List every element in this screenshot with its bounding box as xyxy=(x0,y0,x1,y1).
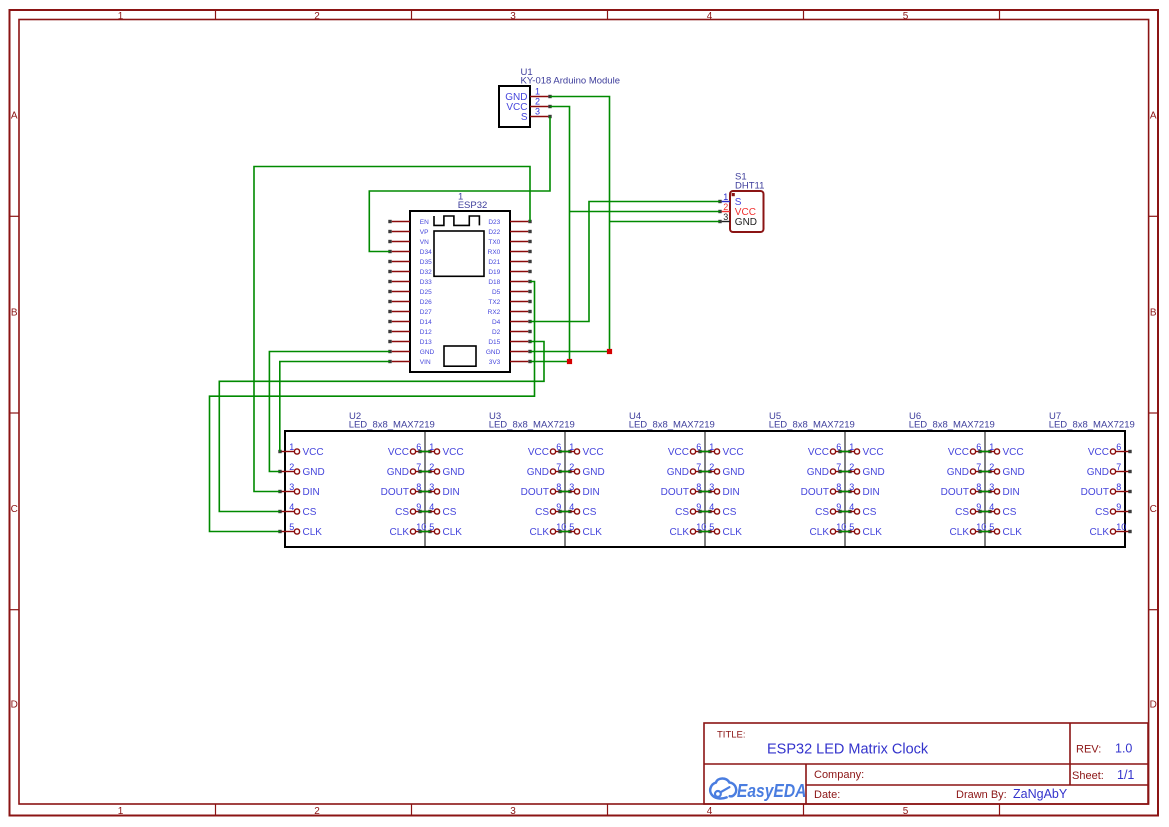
svg-text:VCC: VCC xyxy=(303,447,324,458)
ESP32 left pin EN xyxy=(388,219,429,226)
svg-text:ESP32 LED Matrix Clock: ESP32 LED Matrix Clock xyxy=(767,741,929,757)
ESP32 left pin D26 xyxy=(388,299,432,306)
S1 pin 1 xyxy=(718,192,730,203)
LED matrix modules U2-U7 outer body xyxy=(285,431,1125,547)
svg-text:VCC: VCC xyxy=(723,447,744,458)
svg-text:8: 8 xyxy=(1116,482,1121,492)
U4 pin 8 DOUT xyxy=(661,482,712,498)
svg-text:1: 1 xyxy=(709,442,714,452)
svg-text:D34: D34 xyxy=(420,249,432,256)
wire VCC net branch to S1 VCC xyxy=(570,211,721,213)
U7 pin 4 CS xyxy=(978,502,1016,518)
svg-text:1: 1 xyxy=(535,87,540,97)
svg-text:VCC: VCC xyxy=(388,447,409,458)
svg-text:D35: D35 xyxy=(420,259,432,266)
wire ESP32 GND to GND net junction xyxy=(530,351,610,353)
svg-text:4: 4 xyxy=(707,11,713,22)
U6 pin 4 CS xyxy=(838,502,876,518)
ESP32 left pin D12 xyxy=(388,329,432,336)
svg-text:DIN: DIN xyxy=(443,487,460,498)
wire module chain DOUT-DIN at x=985 xyxy=(980,491,990,493)
ESP32 right pin TX0 xyxy=(488,239,531,246)
microcontroller module ESP32 xyxy=(410,191,510,372)
junction VCC net xyxy=(567,359,572,364)
wire module chain VCC at x=705 xyxy=(700,451,710,453)
ESP32 left pin D34 xyxy=(388,249,432,256)
svg-text:2: 2 xyxy=(569,462,574,472)
svg-text:DOUT: DOUT xyxy=(941,487,969,498)
svg-text:CLK: CLK xyxy=(670,527,690,538)
wire module chain GND at x=985 xyxy=(980,471,990,473)
svg-text:VN: VN xyxy=(420,239,429,246)
ESP32 left pin D33 xyxy=(388,279,432,286)
U7 pin 2 GND xyxy=(978,462,1024,478)
svg-text:GND: GND xyxy=(863,467,885,478)
U1 pin 1 xyxy=(530,87,552,99)
svg-text:2: 2 xyxy=(289,462,294,472)
svg-text:CS: CS xyxy=(583,507,597,518)
svg-text:CLK: CLK xyxy=(583,527,603,538)
sensor module U1 KY-018 Arduino Module xyxy=(499,67,620,127)
svg-text:1/1: 1/1 xyxy=(1117,768,1134,782)
wire ESP32 VIN to U2 VCC xyxy=(280,362,390,452)
ESP32 left pin D32 xyxy=(388,269,432,276)
U3 pin 10 CLK xyxy=(530,522,572,538)
wire module chain CLK at x=705 xyxy=(700,531,710,533)
svg-text:GND: GND xyxy=(947,467,969,478)
U4 pin 3 DIN xyxy=(558,482,599,498)
wire module chain CLK at x=565 xyxy=(560,531,570,533)
svg-text:4: 4 xyxy=(849,502,854,512)
ESP32 left pin VN xyxy=(388,239,429,246)
svg-text:ESP32: ESP32 xyxy=(458,200,488,211)
svg-text:5: 5 xyxy=(849,522,854,532)
U5 pin 7 GND xyxy=(807,462,852,478)
module divider at x=845 xyxy=(844,431,846,547)
U4 pin 9 CS xyxy=(675,502,712,518)
U6 pin 9 CS xyxy=(955,502,992,518)
svg-text:EasyEDA: EasyEDA xyxy=(737,781,807,801)
ESP32 right pin D4 xyxy=(492,319,532,326)
U3 pin 4 CS xyxy=(418,502,456,518)
svg-text:VCC: VCC xyxy=(668,447,689,458)
wire module chain VCC at x=985 xyxy=(980,451,990,453)
U6 pin 6 VCC xyxy=(948,442,992,458)
svg-text:D18: D18 xyxy=(488,279,500,286)
svg-text:TX2: TX2 xyxy=(488,299,500,306)
svg-text:1: 1 xyxy=(989,442,994,452)
svg-text:2: 2 xyxy=(989,462,994,472)
U3 pin 1 VCC xyxy=(418,442,463,458)
svg-text:5: 5 xyxy=(903,11,909,22)
U3 pin 8 DOUT xyxy=(521,482,572,498)
S1 pin 2 xyxy=(718,202,730,213)
svg-text:LED_8x8_MAX7219: LED_8x8_MAX7219 xyxy=(489,420,575,431)
svg-text:5: 5 xyxy=(429,522,434,532)
U5 pin 4 CS xyxy=(698,502,736,518)
ESP32 left pin D27 xyxy=(388,309,432,316)
U5 pin 2 GND xyxy=(698,462,744,478)
svg-text:D25: D25 xyxy=(420,289,432,296)
wire ESP32 D23 to U2 DIN xyxy=(254,167,530,492)
svg-text:RX0: RX0 xyxy=(488,249,501,256)
U2 pin 5 CLK xyxy=(278,522,322,538)
svg-text:VCC: VCC xyxy=(1003,447,1024,458)
svg-text:DIN: DIN xyxy=(863,487,880,498)
svg-text:2: 2 xyxy=(535,97,540,107)
ESP32 left pin VIN xyxy=(388,359,431,366)
svg-text:KY-018 Arduino Module: KY-018 Arduino Module xyxy=(521,75,620,86)
U1 pin 2 xyxy=(530,97,552,109)
U5 pin 3 DIN xyxy=(698,482,739,498)
U4 pin 7 GND xyxy=(667,462,712,478)
svg-text:CLK: CLK xyxy=(443,527,463,538)
svg-text:C: C xyxy=(1150,504,1157,515)
U6 pin 2 GND xyxy=(838,462,884,478)
svg-text:D4: D4 xyxy=(492,319,501,326)
ESP32 right pin RX2 xyxy=(488,309,532,316)
ESP32 right pin D22 xyxy=(488,229,531,236)
svg-text:DOUT: DOUT xyxy=(1081,487,1109,498)
svg-text:CLK: CLK xyxy=(1003,527,1023,538)
wire module chain CS at x=565 xyxy=(560,511,570,513)
svg-text:3V3: 3V3 xyxy=(489,359,501,366)
ESP32 right pin RX0 xyxy=(488,249,532,256)
wire module chain DOUT-DIN at x=705 xyxy=(700,491,710,493)
svg-text:GND: GND xyxy=(1087,467,1109,478)
svg-text:GND: GND xyxy=(1003,467,1025,478)
svg-text:D5: D5 xyxy=(492,289,501,296)
svg-text:6: 6 xyxy=(1116,442,1121,452)
svg-text:B: B xyxy=(11,307,18,318)
svg-text:CLK: CLK xyxy=(863,527,883,538)
svg-text:REV:: REV: xyxy=(1076,743,1101,755)
svg-text:Date:: Date: xyxy=(814,789,840,801)
svg-text:5: 5 xyxy=(569,522,574,532)
svg-text:9: 9 xyxy=(1116,502,1121,512)
svg-text:2: 2 xyxy=(314,806,320,817)
U6 pin 8 DOUT xyxy=(941,482,992,498)
ESP32 right pin D19 xyxy=(488,269,531,276)
svg-text:D12: D12 xyxy=(420,329,432,336)
U5 pin 10 CLK xyxy=(810,522,852,538)
svg-text:GND: GND xyxy=(807,467,829,478)
U4 pin 4 CS xyxy=(558,502,596,518)
svg-text:CS: CS xyxy=(535,507,549,518)
svg-text:1: 1 xyxy=(569,442,574,452)
svg-text:D: D xyxy=(1150,700,1157,711)
svg-text:VCC: VCC xyxy=(1088,447,1109,458)
wire module chain DOUT-DIN at x=565 xyxy=(560,491,570,493)
U3 pin 9 CS xyxy=(535,502,572,518)
ESP32 right pin D15 xyxy=(488,339,531,346)
U2 pin 2 GND xyxy=(278,462,324,478)
svg-text:CLK: CLK xyxy=(530,527,550,538)
wire module chain DOUT-DIN at x=845 xyxy=(840,491,850,493)
wire module chain GND at x=845 xyxy=(840,471,850,473)
U3 pin 5 CLK xyxy=(418,522,462,538)
ESP32 right pin TX2 xyxy=(488,299,531,306)
wire module chain CLK at x=985 xyxy=(980,531,990,533)
svg-text:GND: GND xyxy=(667,467,689,478)
svg-text:5: 5 xyxy=(903,806,909,817)
svg-text:VCC: VCC xyxy=(863,447,884,458)
U4 pin 5 CLK xyxy=(558,522,602,538)
svg-text:4: 4 xyxy=(289,502,294,512)
svg-text:CS: CS xyxy=(395,507,409,518)
wire ESP32 3V3 to VCC net junction xyxy=(530,361,570,363)
svg-text:VP: VP xyxy=(420,229,429,236)
svg-text:D2: D2 xyxy=(492,329,501,336)
svg-text:3: 3 xyxy=(709,482,714,492)
LED matrix module U2 LED_8x8_MAX7219 xyxy=(349,411,435,430)
svg-text:1: 1 xyxy=(289,442,294,452)
svg-text:GND: GND xyxy=(735,217,757,228)
wire ESP32 D4 to S1 S xyxy=(530,202,720,322)
svg-text:D26: D26 xyxy=(420,299,432,306)
svg-text:CLK: CLK xyxy=(810,527,830,538)
ESP32 inner bottom rectangle xyxy=(444,346,476,366)
svg-text:2: 2 xyxy=(723,202,728,212)
svg-text:4: 4 xyxy=(707,806,713,817)
svg-text:GND: GND xyxy=(387,467,409,478)
U2 pin 1 VCC xyxy=(278,442,323,458)
svg-text:4: 4 xyxy=(989,502,994,512)
LED matrix module U4 LED_8x8_MAX7219 xyxy=(629,411,715,430)
U3 pin 2 GND xyxy=(418,462,464,478)
svg-text:CLK: CLK xyxy=(390,527,410,538)
svg-text:3: 3 xyxy=(289,482,294,492)
svg-text:VCC: VCC xyxy=(948,447,969,458)
U7 pin 6 VCC xyxy=(1088,442,1132,458)
svg-text:D14: D14 xyxy=(420,319,432,326)
sensor S1 DHT11 xyxy=(730,172,764,232)
svg-text:3: 3 xyxy=(429,482,434,492)
svg-text:CLK: CLK xyxy=(723,527,743,538)
svg-text:4: 4 xyxy=(429,502,434,512)
junction GND net xyxy=(607,349,612,354)
module divider at x=565 xyxy=(564,431,566,547)
wire module chain VCC at x=425 xyxy=(420,451,430,453)
wire ESP32 GND left to U2 GND xyxy=(269,352,390,472)
U3 pin 7 GND xyxy=(527,462,572,478)
module divider at x=425 xyxy=(424,431,426,547)
wire U1 S to ESP32 D34 xyxy=(369,117,550,252)
svg-text:4: 4 xyxy=(709,502,714,512)
svg-text:D23: D23 xyxy=(488,219,500,226)
svg-text:GND: GND xyxy=(583,467,605,478)
ESP32 left pin D35 xyxy=(388,259,432,266)
svg-text:LED_8x8_MAX7219: LED_8x8_MAX7219 xyxy=(629,420,715,431)
svg-text:VCC: VCC xyxy=(443,447,464,458)
U2 pin 7 GND xyxy=(387,462,432,478)
svg-text:1: 1 xyxy=(849,442,854,452)
U5 pin 8 DOUT xyxy=(801,482,852,498)
svg-text:VCC: VCC xyxy=(583,447,604,458)
LED matrix module U3 LED_8x8_MAX7219 xyxy=(489,411,575,430)
svg-text:GND: GND xyxy=(443,467,465,478)
svg-text:DIN: DIN xyxy=(303,487,320,498)
svg-text:5: 5 xyxy=(989,522,994,532)
U2 pin 10 CLK xyxy=(390,522,432,538)
svg-text:LED_8x8_MAX7219: LED_8x8_MAX7219 xyxy=(1049,420,1135,431)
svg-text:3: 3 xyxy=(569,482,574,492)
svg-text:5: 5 xyxy=(289,522,294,532)
wire U1 VCC down to 3V3 net xyxy=(550,107,570,362)
wire U1 GND down to GND net xyxy=(550,97,610,352)
wire module chain CS at x=985 xyxy=(980,511,990,513)
svg-text:TX0: TX0 xyxy=(488,239,500,246)
U2 pin 4 CS xyxy=(278,502,316,518)
svg-text:DOUT: DOUT xyxy=(661,487,689,498)
U4 pin 2 GND xyxy=(558,462,604,478)
U7 pin 7 GND xyxy=(1087,462,1132,478)
ESP32 right pin D2 xyxy=(492,329,532,336)
module divider at x=705 xyxy=(704,431,706,547)
ESP32 right pin D23 xyxy=(488,219,531,226)
ESP32 left pin D25 xyxy=(388,289,432,296)
U1 pin 3 xyxy=(530,107,552,119)
ESP32 right pin GND xyxy=(486,349,532,356)
ESP32 left pin GND xyxy=(388,349,434,356)
wire ESP32 D18 to U2 CLK xyxy=(210,282,535,532)
svg-text:CLK: CLK xyxy=(303,527,323,538)
svg-text:LED_8x8_MAX7219: LED_8x8_MAX7219 xyxy=(349,420,435,431)
ESP32 inner chip rectangle xyxy=(434,231,484,276)
wire module chain CS at x=845 xyxy=(840,511,850,513)
svg-text:DOUT: DOUT xyxy=(381,487,409,498)
svg-text:B: B xyxy=(1150,307,1157,318)
svg-text:D27: D27 xyxy=(420,309,432,316)
svg-text:D22: D22 xyxy=(488,229,500,236)
svg-text:DIN: DIN xyxy=(723,487,740,498)
ESP32 right pin D5 xyxy=(492,289,532,296)
svg-text:CS: CS xyxy=(443,507,457,518)
LED matrix module U7 LED_8x8_MAX7219 xyxy=(1049,411,1135,430)
U4 pin 6 VCC xyxy=(668,442,712,458)
wire module chain VCC at x=845 xyxy=(840,451,850,453)
wire module chain DOUT-DIN at x=425 xyxy=(420,491,430,493)
svg-text:2: 2 xyxy=(709,462,714,472)
U5 pin 9 CS xyxy=(815,502,852,518)
U2 pin 9 CS xyxy=(395,502,432,518)
svg-text:1: 1 xyxy=(429,442,434,452)
svg-text:5: 5 xyxy=(709,522,714,532)
U7 pin 3 DIN xyxy=(978,482,1019,498)
svg-text:DIN: DIN xyxy=(1003,487,1020,498)
U7 pin 1 VCC xyxy=(978,442,1023,458)
svg-text:10: 10 xyxy=(1116,522,1126,532)
svg-text:3: 3 xyxy=(849,482,854,492)
module divider at x=985 xyxy=(984,431,986,547)
svg-text:D32: D32 xyxy=(420,269,432,276)
svg-text:C: C xyxy=(11,504,18,515)
svg-text:CS: CS xyxy=(1095,507,1109,518)
svg-text:A: A xyxy=(11,111,18,122)
svg-text:TITLE:: TITLE: xyxy=(717,730,746,741)
wire module chain VCC at x=565 xyxy=(560,451,570,453)
wire module chain CLK at x=845 xyxy=(840,531,850,533)
svg-text:EN: EN xyxy=(420,219,429,226)
svg-text:CS: CS xyxy=(1003,507,1017,518)
U5 pin 6 VCC xyxy=(808,442,852,458)
U4 pin 1 VCC xyxy=(558,442,603,458)
svg-text:RX2: RX2 xyxy=(488,309,501,316)
svg-text:CS: CS xyxy=(955,507,969,518)
svg-text:1: 1 xyxy=(118,11,124,22)
svg-text:CS: CS xyxy=(863,507,877,518)
U6 pin 7 GND xyxy=(947,462,992,478)
svg-text:CLK: CLK xyxy=(1090,527,1110,538)
S1 pin 3 xyxy=(718,212,730,223)
svg-text:S: S xyxy=(521,112,528,123)
ESP32 left pin D13 xyxy=(388,339,432,346)
svg-text:GND: GND xyxy=(486,349,501,356)
svg-text:1: 1 xyxy=(723,192,728,202)
svg-text:ZaNgAbY: ZaNgAbY xyxy=(1013,787,1068,801)
svg-text:GND: GND xyxy=(420,349,435,356)
svg-text:LED_8x8_MAX7219: LED_8x8_MAX7219 xyxy=(769,420,855,431)
wire module chain CLK at x=425 xyxy=(420,531,430,533)
svg-text:3: 3 xyxy=(535,107,540,117)
U2 pin 6 VCC xyxy=(388,442,432,458)
svg-text:DOUT: DOUT xyxy=(801,487,829,498)
svg-text:3: 3 xyxy=(510,11,516,22)
svg-text:DHT11: DHT11 xyxy=(735,180,764,191)
svg-text:LED_8x8_MAX7219: LED_8x8_MAX7219 xyxy=(909,420,995,431)
ESP32 right pin D21 xyxy=(488,259,531,266)
U4 pin 10 CLK xyxy=(670,522,712,538)
wire module chain CS at x=705 xyxy=(700,511,710,513)
ESP32 right pin 3V3 xyxy=(489,359,532,366)
U7 pin 10 CLK xyxy=(1090,522,1132,538)
svg-text:D: D xyxy=(11,700,18,711)
svg-text:A: A xyxy=(1150,111,1157,122)
U2 pin 3 DIN xyxy=(278,482,319,498)
svg-text:D13: D13 xyxy=(420,339,432,346)
LED matrix module U6 LED_8x8_MAX7219 xyxy=(909,411,995,430)
svg-text:VIN: VIN xyxy=(420,359,431,366)
U3 pin 3 DIN xyxy=(418,482,459,498)
svg-text:GND: GND xyxy=(723,467,745,478)
svg-text:CS: CS xyxy=(815,507,829,518)
svg-text:4: 4 xyxy=(569,502,574,512)
svg-text:DIN: DIN xyxy=(583,487,600,498)
svg-text:3: 3 xyxy=(989,482,994,492)
U7 pin 5 CLK xyxy=(978,522,1022,538)
svg-text:Sheet:: Sheet: xyxy=(1072,770,1104,782)
svg-text:CLK: CLK xyxy=(950,527,970,538)
svg-text:DOUT: DOUT xyxy=(521,487,549,498)
svg-text:2: 2 xyxy=(429,462,434,472)
U7 pin 9 CS xyxy=(1095,502,1132,518)
svg-text:CS: CS xyxy=(675,507,689,518)
U6 pin 3 DIN xyxy=(838,482,879,498)
LED matrix module U5 LED_8x8_MAX7219 xyxy=(769,411,855,430)
svg-text:Drawn By:: Drawn By: xyxy=(956,789,1007,801)
svg-text:1: 1 xyxy=(118,806,124,817)
U6 pin 1 VCC xyxy=(838,442,883,458)
U5 pin 5 CLK xyxy=(698,522,742,538)
svg-text:D19: D19 xyxy=(488,269,500,276)
svg-text:GND: GND xyxy=(303,467,325,478)
title block xyxy=(704,723,1148,804)
U7 pin 8 DOUT xyxy=(1081,482,1132,498)
svg-text:CS: CS xyxy=(303,507,317,518)
wire module chain CS at x=425 xyxy=(420,511,430,513)
wire GND net branch to S1 GND xyxy=(610,221,721,223)
svg-text:GND: GND xyxy=(527,467,549,478)
